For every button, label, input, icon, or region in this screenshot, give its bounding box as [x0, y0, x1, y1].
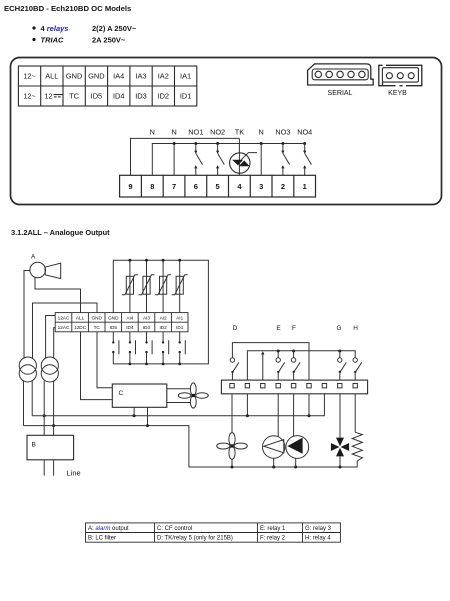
- ID2 input contact: [162, 332, 169, 366]
- svg-text:TK: TK: [235, 128, 244, 137]
- svg-text:GND: GND: [88, 72, 104, 81]
- svg-text:F: relay 2: F: relay 2: [260, 536, 286, 542]
- svg-text:NO3: NO3: [275, 128, 290, 137]
- terminal labels row 1: [23, 72, 191, 81]
- svg-text:6: 6: [194, 182, 198, 191]
- svg-text:5: 5: [216, 182, 220, 191]
- legend table: [86, 523, 341, 542]
- wire terminal 3 to bus B: [260, 144, 262, 176]
- svg-text:A: alarm output: A: alarm output: [88, 526, 129, 532]
- CF control box C: [112, 384, 167, 407]
- ID1 input contact: [178, 332, 185, 366]
- svg-text:TC: TC: [94, 325, 101, 330]
- svg-text:ID1: ID1: [180, 92, 192, 101]
- svg-text:ID4: ID4: [126, 325, 134, 330]
- svg-text:ID5: ID5: [110, 325, 118, 330]
- svg-text:2A 250V~: 2A 250V~: [92, 36, 126, 45]
- stub output3 to H2 with arrow: [261, 351, 264, 380]
- svg-text:GND: GND: [91, 316, 102, 321]
- svg-text:B: B: [32, 442, 36, 449]
- svg-text:IA4: IA4: [113, 72, 124, 81]
- bullet list: [32, 24, 136, 45]
- relay terminal strip cells 9..1: [120, 175, 316, 197]
- svg-text:7: 7: [172, 182, 176, 191]
- svg-text:4: 4: [237, 182, 242, 191]
- svg-text:NO1: NO1: [188, 128, 203, 137]
- contact E: [276, 350, 285, 381]
- svg-text:12AC: 12AC: [58, 316, 70, 321]
- terminal block table (12~/ALL/GND...): [18, 66, 196, 106]
- svg-text:ID3: ID3: [135, 92, 147, 101]
- legend texts: [88, 526, 332, 542]
- wire output9 to resistor: [354, 394, 356, 433]
- output terminal squares: [230, 384, 358, 388]
- wire C box to line2: [147, 407, 149, 425]
- svg-text:N: N: [171, 128, 176, 137]
- svg-text:ALL: ALL: [45, 72, 58, 81]
- svg-text:12DC: 12DC: [74, 325, 87, 330]
- terminal labels row 2: [23, 92, 191, 101]
- svg-text:D: D: [233, 325, 238, 332]
- svg-text:ID2: ID2: [159, 325, 167, 330]
- transformer T2: [41, 357, 58, 382]
- relay contact NO4: [303, 142, 311, 175]
- wire T1 left down to bus line2: [23, 381, 25, 426]
- svg-text:NO4: NO4: [297, 128, 312, 137]
- wire T1 right down to bus line1: [31, 381, 33, 416]
- svg-text:2(2) A 250V~: 2(2) A 250V~: [92, 24, 137, 33]
- ID3 input contact: [145, 332, 152, 366]
- svg-text:2: 2: [281, 182, 285, 191]
- svg-text:9: 9: [128, 182, 132, 191]
- svg-text:IA1: IA1: [180, 72, 191, 81]
- svg-text:AI3: AI3: [143, 316, 150, 321]
- relay contact NO1: [194, 142, 202, 175]
- svg-text:4 relays: 4 relays: [41, 24, 69, 33]
- mixing valve: [331, 438, 349, 457]
- svg-text:12: 12: [44, 92, 52, 101]
- pump1 (relay1 pump): [263, 436, 285, 458]
- svg-text:SERIAL: SERIAL: [328, 90, 353, 97]
- wire ALL/12DC column to C box: [81, 332, 113, 400]
- svg-text:ALL: ALL: [76, 316, 85, 321]
- svg-text:GND: GND: [108, 316, 119, 321]
- wire T2 left down to B box: [43, 381, 45, 436]
- contact H: [353, 358, 362, 380]
- wire bus A from terminal 9 to triac: [131, 138, 240, 175]
- svg-text:B: LC filter: B: LC filter: [88, 536, 116, 542]
- svg-text:TRIAC: TRIAC: [41, 36, 64, 45]
- svg-text:12~: 12~: [23, 72, 36, 81]
- svg-text:H: H: [353, 325, 358, 332]
- bus H1 (D / output 6): [232, 343, 309, 381]
- contact D: [230, 358, 239, 380]
- svg-text:AI2: AI2: [160, 316, 167, 321]
- junction pump1/bus: [272, 466, 275, 469]
- svg-text:AI1: AI1: [176, 316, 183, 321]
- ID5 input contact: [112, 332, 119, 364]
- relay contact NO3: [281, 142, 289, 175]
- svg-text:3: 3: [259, 182, 263, 191]
- svg-text:G: relay 3: G: relay 3: [305, 526, 332, 532]
- wire fan to bottom bus: [231, 459, 233, 467]
- SERIAL connector: [308, 64, 374, 85]
- svg-text:D: TK/relay 5 (only for 215B): D: TK/relay 5 (only for 215B): [157, 536, 233, 542]
- pump2 (relay2 pump): [286, 436, 309, 459]
- wire output8 to valve: [339, 394, 341, 438]
- svg-text:1: 1: [303, 182, 307, 191]
- bus H2 (E F G H commons): [247, 351, 355, 380]
- varistor RV3: [155, 260, 171, 312]
- svg-text:ID3: ID3: [143, 325, 151, 330]
- KEYB connector: [379, 65, 422, 85]
- svg-text:ID2: ID2: [158, 92, 170, 101]
- wire T2 left to 12AC row1: [46, 316, 56, 359]
- wire bus B from terminal 8 to NO4: [152, 144, 304, 176]
- controller outline box: [11, 58, 442, 205]
- line stubs below B: [44, 460, 53, 476]
- svg-text:ID1: ID1: [176, 325, 184, 330]
- junction fan/bus: [231, 466, 234, 469]
- bus line2: [24, 426, 358, 467]
- svg-text:H: relay 4: H: relay 4: [305, 536, 331, 542]
- junction output2/line1: [246, 414, 249, 417]
- varistor RV1: [122, 260, 138, 312]
- svg-text:8: 8: [150, 182, 154, 191]
- junction valve/bus: [339, 466, 342, 469]
- bus line1: [32, 394, 324, 416]
- output terminal strip: [221, 380, 367, 394]
- varistor block bus frame: [113, 260, 208, 364]
- wire speaker bottom to ALL terminal: [35, 277, 81, 312]
- junction T2/line1: [43, 414, 46, 417]
- svg-text:KEYB: KEYB: [388, 90, 407, 97]
- wire speaker left to transformer T1: [24, 271, 30, 359]
- svg-text:C: CF control: C: CF control: [157, 526, 192, 532]
- LC filter box B: [27, 435, 74, 460]
- wire valve to bottom bus: [339, 456, 341, 467]
- svg-text:E: E: [276, 325, 281, 332]
- wire output5 to pump2: [293, 394, 295, 437]
- wire pump2 to bottom bus: [295, 458, 297, 467]
- svg-text:G: G: [336, 325, 341, 332]
- junction C/line2: [146, 424, 149, 427]
- svg-text:N: N: [259, 128, 264, 137]
- varistor RV4: [172, 260, 188, 312]
- svg-text:ECH210BD - Ech210BD OC Models: ECH210BD - Ech210BD OC Models: [4, 4, 131, 13]
- analogue terminal table: [55, 313, 188, 332]
- relay section labels D E F G H: [233, 325, 359, 332]
- svg-text:IA3: IA3: [135, 72, 146, 81]
- wire T2 right down to B box: [53, 381, 55, 436]
- wire output4 to pump1: [277, 394, 279, 437]
- analogue table labels: [58, 316, 184, 331]
- triac symbol: [230, 153, 257, 174]
- alarm speaker A: [30, 262, 61, 278]
- svg-text:12~: 12~: [23, 92, 36, 101]
- wire terminal 7 to bus B: [173, 144, 175, 176]
- varistor RV2: [139, 260, 155, 312]
- heater resistor: [352, 432, 362, 461]
- wire output6 to line1: [308, 394, 310, 416]
- junction at N7: [173, 142, 176, 145]
- junction output6/line1: [308, 414, 311, 417]
- contact F: [291, 350, 300, 381]
- svg-text:GND: GND: [66, 72, 82, 81]
- svg-text:TC: TC: [69, 92, 80, 101]
- wires C box to fan: [167, 389, 191, 403]
- relay terminal labels N N NO1 NO2 TK N NO3 NO4: [150, 128, 313, 137]
- transformer T1: [19, 357, 36, 382]
- wire output2 to line1: [246, 394, 248, 416]
- contact G: [338, 350, 347, 381]
- svg-text:A: A: [31, 254, 36, 261]
- junction C/line1: [133, 414, 136, 417]
- svg-text:C: C: [119, 390, 124, 397]
- svg-text:AI4: AI4: [126, 316, 133, 321]
- svg-text:N: N: [150, 128, 155, 137]
- svg-text:ID4: ID4: [113, 92, 125, 101]
- wire GND/TC column to C box: [97, 332, 112, 388]
- triac TK wire: [238, 138, 240, 175]
- wire T2 right to 12AC row2: [54, 328, 56, 358]
- ID4 input contact: [129, 332, 136, 366]
- svg-text:E: relay 1: E: relay 1: [260, 526, 286, 532]
- svg-text:ID5: ID5: [91, 92, 103, 101]
- svg-text:IA2: IA2: [158, 72, 169, 81]
- svg-text:Line: Line: [67, 469, 81, 478]
- wire output1 to fan: [231, 394, 233, 433]
- wire T1 right to GND terminal: [33, 303, 98, 358]
- svg-text:F: F: [292, 325, 296, 332]
- relay contact NO2: [216, 142, 224, 175]
- svg-text:12AC: 12AC: [58, 325, 70, 330]
- junction at N3: [260, 142, 263, 145]
- svg-text:NO2: NO2: [210, 128, 225, 137]
- wire C box to line1: [133, 407, 135, 416]
- junction T2/line2: [52, 424, 55, 427]
- wire pump1 to bottom bus: [273, 458, 275, 467]
- CF fan rotor: [178, 383, 208, 408]
- fan device rotor: [217, 433, 248, 460]
- DC symbol in 12dc cell: [54, 95, 63, 97]
- junction pump2/bus: [294, 466, 297, 469]
- svg-text:3.1.2ALL – Analogue Output: 3.1.2ALL – Analogue Output: [11, 228, 110, 237]
